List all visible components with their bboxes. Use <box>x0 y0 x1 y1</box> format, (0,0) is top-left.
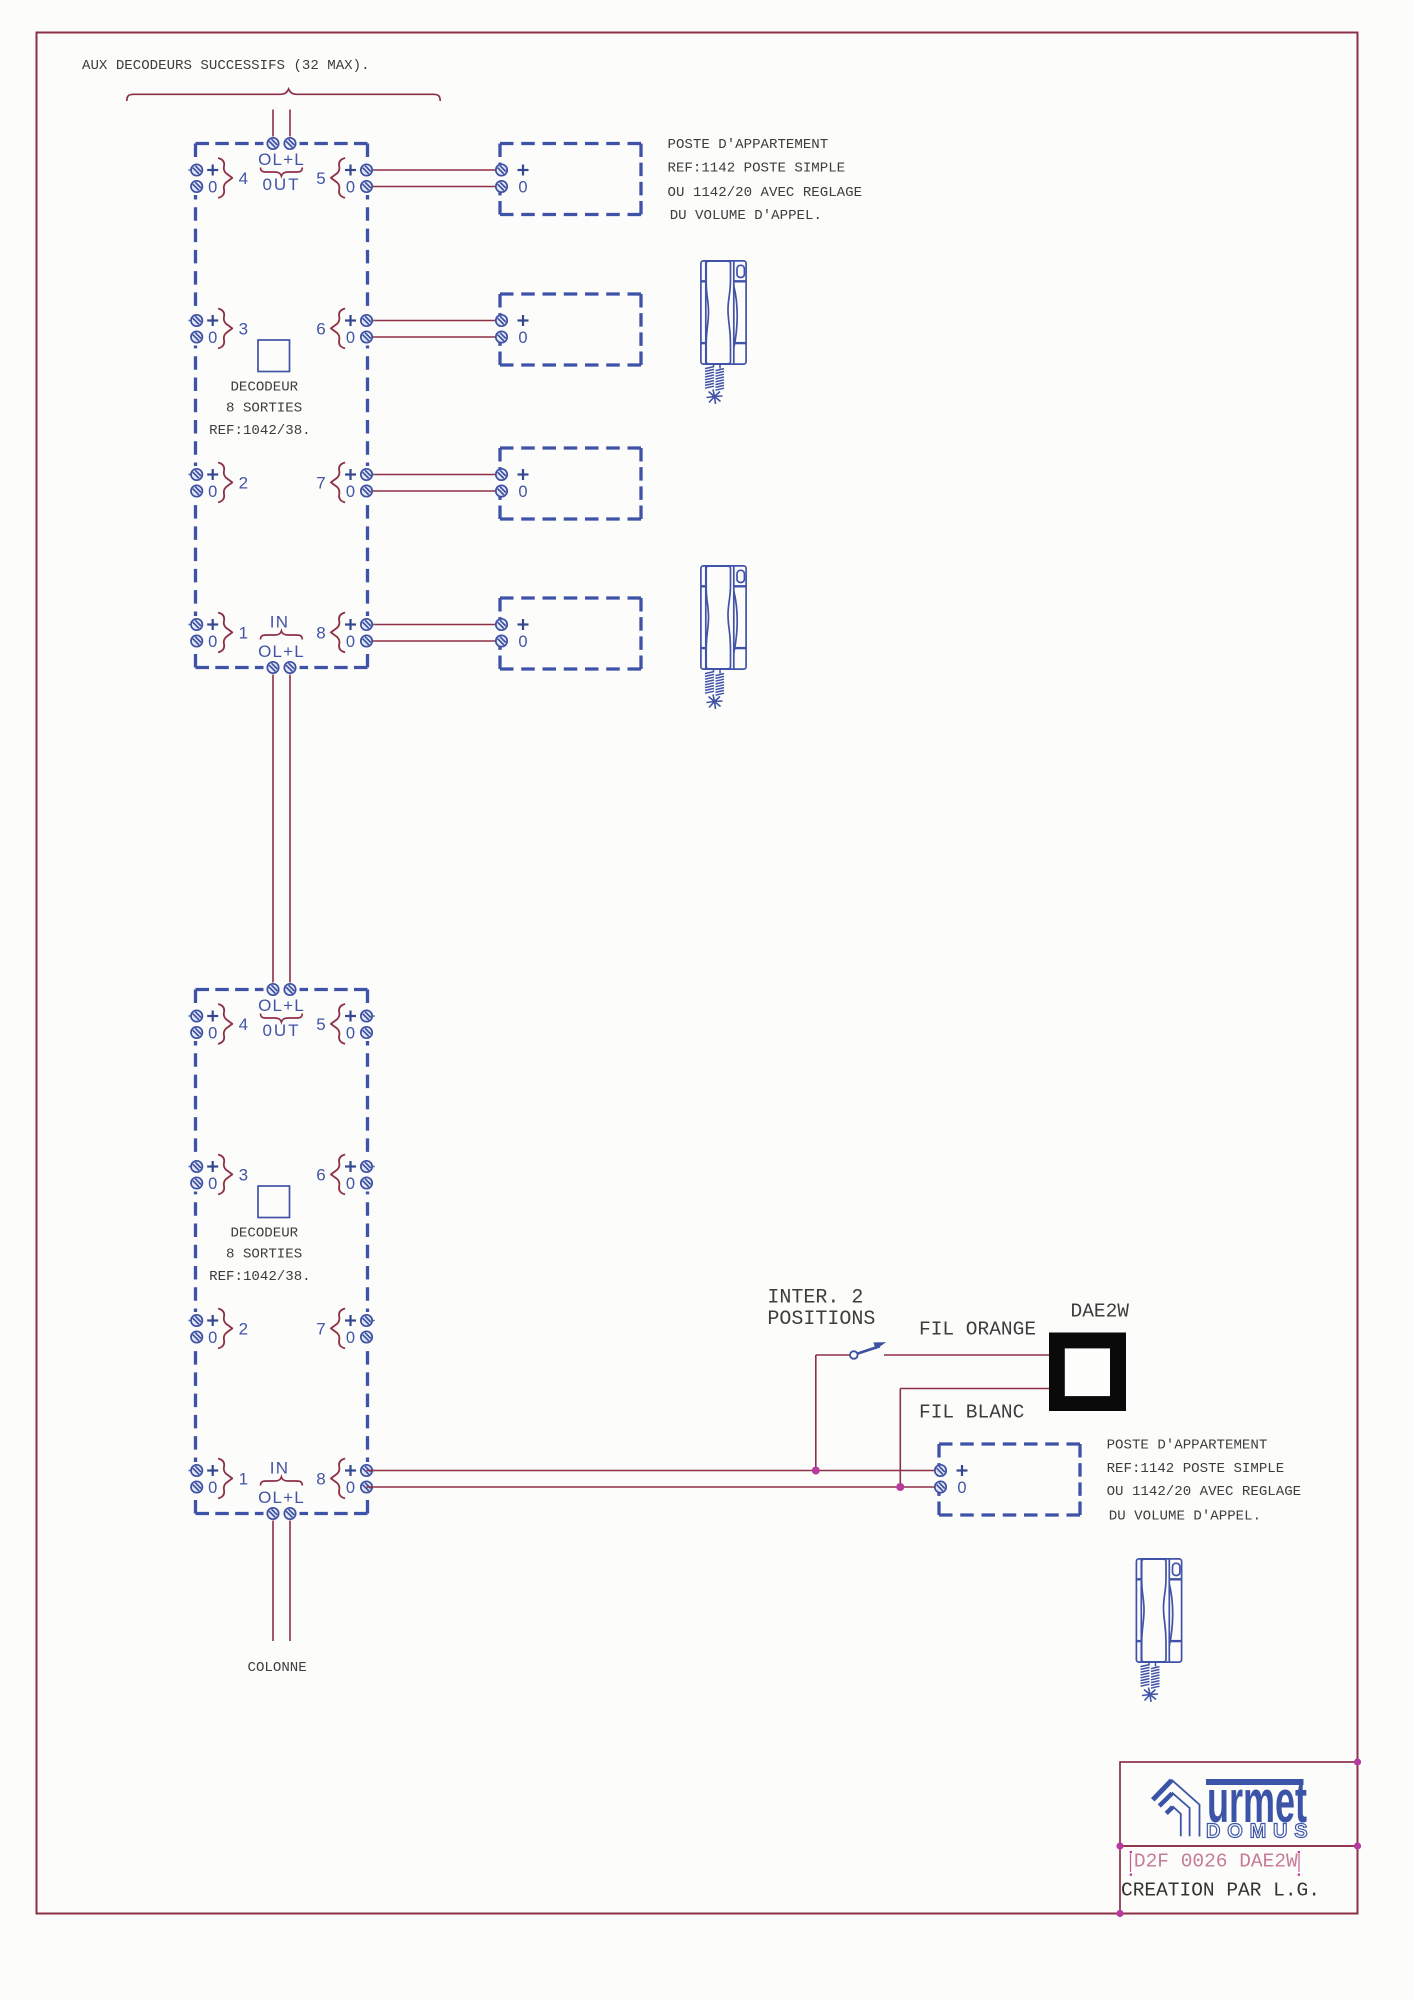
wire riser to switch <box>815 1355 817 1471</box>
svg-text:FIL ORANGE: FIL ORANGE <box>919 1319 1036 1341</box>
wire colonne +L <box>289 1514 291 1642</box>
svg-text:POSITIONS: POSITIONS <box>767 1308 875 1331</box>
decoder U1 REF:1042/38 <box>188 137 374 675</box>
junction node on + wire <box>812 1467 820 1475</box>
handset icon 1 <box>701 261 746 404</box>
wire decoder1 out7+ to poste3 <box>367 474 502 476</box>
bottom poste box <box>935 1444 1080 1515</box>
junction node on 0 wire <box>896 1483 904 1491</box>
poste box 1 <box>496 144 641 215</box>
switch INTER 2 positions <box>850 1342 886 1359</box>
wire decoder1 out8+ to poste4 <box>367 624 502 626</box>
wire decoder1 out6+ to poste2 <box>367 320 502 322</box>
title block logo box <box>1120 1762 1358 1846</box>
svg-text:REF:1142 POSTE SIMPLE: REF:1142 POSTE SIMPLE <box>1107 1461 1285 1477</box>
svg-text:OU 1142/20 AVEC REGLAGE: OU 1142/20 AVEC REGLAGE <box>1107 1484 1302 1500</box>
wire colonne OL <box>272 1514 274 1642</box>
urmet logotype <box>1206 1779 1304 1785</box>
svg-text:REF:1142 POSTE SIMPLE: REF:1142 POSTE SIMPLE <box>668 161 846 177</box>
svg-text:OU 1142/20 AVEC REGLAGE: OU 1142/20 AVEC REGLAGE <box>668 185 863 201</box>
handset icon 2 <box>701 566 746 709</box>
wire +L stub to decoder 1 <box>289 110 291 144</box>
svg-text:DU VOLUME D'APPEL.: DU VOLUME D'APPEL. <box>670 208 822 224</box>
svg-text:FIL BLANC: FIL BLANC <box>919 1402 1024 1424</box>
poste box 4 <box>496 598 641 669</box>
wire to switch circle <box>816 1354 850 1356</box>
wire riser to DAE2W white <box>899 1389 901 1488</box>
svg-text:INTER. 2: INTER. 2 <box>767 1287 863 1310</box>
wire decoder1 out6-0 to poste2 <box>367 336 502 338</box>
svg-text:POSTE D'APPARTEMENT: POSTE D'APPARTEMENT <box>668 137 829 153</box>
wire fil orange switch to DAE2W <box>884 1354 1049 1356</box>
urmet roof logo <box>1153 1780 1200 1837</box>
svg-text:D2F 0026 DAE2W: D2F 0026 DAE2W <box>1134 1851 1298 1873</box>
svg-text:POSTE D'APPARTEMENT: POSTE D'APPARTEMENT <box>1107 1438 1268 1454</box>
decoder U2 REF:1042/38 <box>188 983 374 1521</box>
poste box 2 <box>496 294 641 365</box>
wire decoder1 out5-0 to poste1 <box>367 186 502 188</box>
wire decoder1 out5+ to poste1 <box>367 169 502 171</box>
svg-text:AUX DECODEURS SUCCESSIFS (32 M: AUX DECODEURS SUCCESSIFS (32 MAX). <box>82 58 370 74</box>
svg-text:CREATION PAR L.G.: CREATION PAR L.G. <box>1121 1880 1320 1902</box>
wire +L riser decoder1 to decoder2 <box>289 668 291 990</box>
svg-text:DAE2W: DAE2W <box>1071 1301 1130 1323</box>
wire fil blanc to DAE2W <box>900 1388 1049 1390</box>
title block text box <box>1120 1846 1358 1914</box>
brace to successive decoders <box>127 89 440 101</box>
wire decoder1 out7-0 to poste3 <box>367 490 502 492</box>
poste box 3 <box>496 448 641 519</box>
selection marks around title <box>1131 1854 1300 1872</box>
wire OL riser decoder1 to decoder2 <box>272 668 274 990</box>
wire decoder2 in8-0 to bottom poste <box>367 1486 944 1488</box>
DAE2W module box <box>1049 1333 1126 1412</box>
svg-text:COLONNE: COLONNE <box>248 1660 307 1676</box>
wire decoder1 out8-0 to poste4 <box>367 640 502 642</box>
wire decoder2 in8+ to bottom poste <box>367 1470 944 1472</box>
svg-text:DOMUS: DOMUS <box>1206 1821 1314 1843</box>
svg-text:DU VOLUME D'APPEL.: DU VOLUME D'APPEL. <box>1109 1508 1261 1524</box>
magenta node dots on title block <box>1116 1842 1123 1849</box>
wire OL stub to decoder 1 <box>272 110 274 144</box>
handset icon 3 <box>1136 1559 1181 1702</box>
